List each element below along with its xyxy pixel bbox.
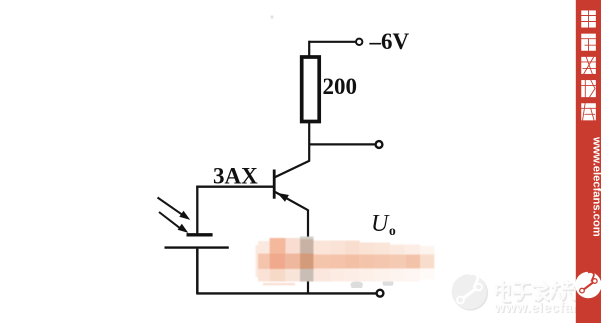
- banner glyph dian: [581, 8, 597, 30]
- wire top supply horizontal: [309, 41, 356, 43]
- svg-text:www.elecfans.com: www.elecfans.com: [590, 136, 601, 237]
- light arrow upper: [158, 198, 191, 220]
- label 3AX: [213, 164, 258, 189]
- transistor Q1 3AX base bar: [273, 170, 276, 199]
- svg-text:3AX: 3AX: [213, 164, 258, 189]
- svg-text:200: 200: [323, 74, 358, 99]
- wire supply to resistor top: [308, 41, 310, 57]
- svg-text:–6V: –6V: [369, 29, 410, 54]
- resistor R1 200: [302, 57, 320, 122]
- banner glyph zi: [581, 33, 597, 53]
- label 200: [323, 74, 358, 99]
- pixelated pink blur patch: [256, 237, 435, 286]
- watermark banner red strip: [576, 0, 601, 323]
- transistor Q1 collector lead: [275, 161, 310, 177]
- label Uo: [371, 211, 396, 238]
- faint scan speck: [270, 15, 273, 18]
- light arrow lower: [159, 212, 188, 233]
- watermark embossed logo circle: [452, 273, 489, 310]
- terminal output top: [376, 141, 383, 148]
- svg-text:o: o: [389, 223, 396, 238]
- banner glyph shao: [581, 80, 597, 98]
- watermark embossed brand glyphs: [496, 281, 588, 303]
- banner glyph fa: [581, 56, 597, 74]
- terminal output bottom: [377, 290, 384, 297]
- wire bottom rail: [196, 292, 377, 294]
- photocell battery plate long: [165, 246, 229, 248]
- wire collector output horizontal: [309, 143, 375, 145]
- photocell battery plate short: [187, 233, 213, 236]
- wire photocell to bottom rail: [196, 249, 199, 294]
- wire base horizontal: [196, 186, 274, 188]
- transistor Q1 emitter lead with arrow: [275, 192, 308, 210]
- svg-text:U: U: [371, 211, 390, 237]
- watermark embossed url text: [493, 300, 601, 316]
- faint marks under blur: [351, 281, 394, 288]
- wire emitter vertical: [307, 210, 309, 294]
- wire resistor bottom to collector node: [308, 122, 310, 162]
- banner glyph you: [581, 103, 597, 121]
- wire left vertical to photocell: [196, 186, 198, 234]
- terminal supply -6V: [356, 39, 362, 45]
- banner url text vertical: [590, 136, 601, 237]
- label -6V: [369, 29, 410, 54]
- banner logo circle: [575, 272, 601, 298]
